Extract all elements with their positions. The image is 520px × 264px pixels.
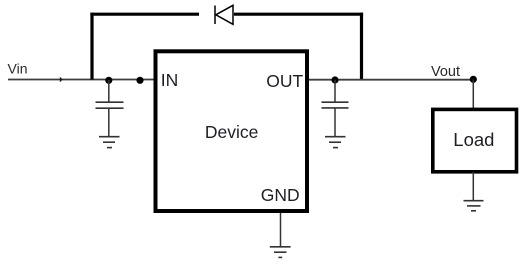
ground symbol below GND pin	[270, 247, 291, 258]
ground symbol below C2	[325, 137, 346, 148]
diode D1 cathode bar	[214, 6, 216, 25]
capacitor C2 top lead	[334, 80, 336, 102]
svg-text:Load: Load	[453, 129, 494, 150]
junction tick on input rail	[60, 77, 63, 82]
junction node at Vout	[470, 76, 477, 83]
svg-text:Vin: Vin	[8, 61, 28, 77]
capacitor C1 top lead	[108, 80, 110, 102]
load box	[433, 109, 517, 171]
junction node at C1	[105, 77, 112, 84]
capacitor C1 bottom lead	[108, 108, 110, 136]
svg-text:Vout: Vout	[431, 64, 460, 80]
junction node at C2	[331, 76, 338, 83]
wire OUT output rail	[309, 79, 473, 81]
junction node at IN pin	[136, 77, 143, 84]
op-amp U1 Device box	[156, 51, 308, 211]
wire Vin input rail	[8, 79, 154, 81]
capacitor C2 bottom lead	[334, 108, 336, 136]
wire GND pin lead	[280, 213, 282, 246]
svg-text:GND: GND	[261, 185, 300, 205]
svg-text:IN: IN	[161, 70, 179, 90]
wire Load to ground	[472, 172, 474, 201]
wire bypass loop top right horizontal	[234, 13, 363, 16]
wire Vout to Load	[472, 79, 474, 108]
diode D1 triangle	[216, 5, 233, 24]
ground symbol below Load	[464, 201, 484, 211]
wire bypass loop right vertical	[360, 13, 363, 80]
ground symbol below C1	[99, 137, 120, 148]
wire bypass loop top left horizontal	[90, 13, 199, 16]
wire bypass loop left vertical	[90, 13, 93, 80]
svg-text:OUT: OUT	[266, 71, 303, 91]
capacitor C2 plates	[322, 102, 349, 108]
capacitor C1 plates	[96, 102, 124, 108]
svg-text:Device: Device	[205, 122, 259, 142]
